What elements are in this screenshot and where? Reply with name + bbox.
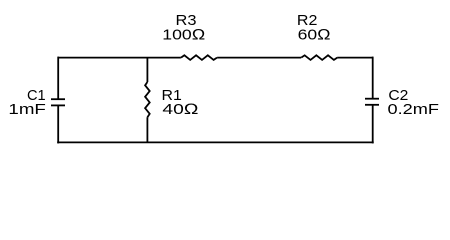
- svg-text:0.2mF: 0.2mF: [388, 101, 440, 118]
- label R2: [297, 12, 331, 43]
- label R1: [162, 87, 199, 118]
- wire top-right segment: [337, 57, 373, 59]
- svg-text:100Ω: 100Ω: [162, 27, 205, 44]
- wire R1 top lead: [146, 58, 148, 82]
- wire left vertical lower: [57, 105, 59, 143]
- resistor R1: [145, 82, 150, 117]
- label C2: [388, 87, 440, 118]
- wire bottom: [57, 141, 374, 143]
- resistor R2: [301, 55, 337, 60]
- svg-text:60Ω: 60Ω: [298, 27, 331, 44]
- wire right vertical lower: [372, 105, 374, 144]
- wire top-left segment: [58, 57, 181, 59]
- resistor R3: [181, 55, 217, 60]
- svg-text:40Ω: 40Ω: [162, 101, 198, 118]
- wire left vertical upper: [57, 57, 59, 100]
- label C1: [8, 87, 46, 118]
- wire R1 bottom lead: [146, 117, 148, 142]
- wire between R3 and R2: [217, 57, 301, 59]
- wire right vertical upper: [372, 57, 374, 99]
- svg-text:1mF: 1mF: [8, 101, 46, 118]
- capacitor C2: [365, 99, 379, 105]
- capacitor C1: [51, 99, 65, 105]
- label R3: [162, 12, 205, 43]
